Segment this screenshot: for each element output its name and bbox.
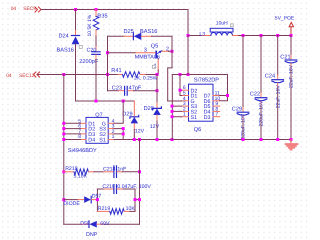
svg-text:BAS16: BAS16 [57,48,74,54]
junction bridge / right wall [138,198,141,201]
svg-text:2K, 0.25W: 2K, 0.25W [134,76,158,82]
junction S2 column [122,132,125,135]
Q7 pin 3 [108,128,114,130]
wire Q5 emitter down to R41 node [157,70,158,75]
wire Q6 source rows to x172 column [172,106,182,117]
svg-text:D29: D29 [122,112,132,118]
capacitor C219 0.047uF [97,184,151,194]
Q6 pin 4 [182,100,189,102]
Q6 pin 9 [213,105,220,107]
svg-text:C218: C218 [103,166,116,172]
svg-text:12V: 12V [135,129,145,135]
svg-text:R35: R35 [97,14,107,20]
IC Q6 Si7852DP [182,77,221,134]
Q6 pin 5 [182,95,189,97]
svg-text:5V_POE: 5V_POE [275,16,295,22]
Q6 pin 3 [182,105,189,107]
wire D29 to ground rail [133,130,135,140]
wire Q7 S3/S2 to S column [114,129,123,140]
wire Q7 gate G up to node row [114,101,123,123]
junction L3 column / row [187,34,190,37]
wire SEC9 top rail [41,9,188,11]
diode D58 60V (DNP) [64,221,140,238]
wire collector column with jog to gate row [168,36,172,101]
svg-text:D58: D58 [80,221,90,227]
wire R41 right to emitter node [146,74,157,76]
svg-text:BAS16: BAS16 [140,29,157,35]
wire Q7 D4 row [64,139,81,141]
capacitor C218 1nF [103,166,126,178]
svg-text:C20: C20 [87,48,97,54]
wire SEC12 row [37,74,118,76]
Q7 pin 7 [80,133,86,135]
junction bridge / inner right wall [134,198,137,201]
junction bus / L3 column [187,73,190,76]
svg-text:R219: R219 [98,206,111,212]
svg-text:47pF: 47pF [129,85,142,91]
Q7 pin 6 [80,128,86,130]
wire Q7 drain column x=63.8 [63,74,65,224]
svg-text:Si4946BDY: Si4946BDY [68,147,97,154]
Q6 pin 7 [213,116,220,118]
Q6 pin 11 [213,95,220,97]
junction drain column / R218 row [62,170,65,173]
junction bus / Q6 D2-D1 drop [179,73,182,76]
svg-text:10.5K 1%: 10.5K 1% [87,14,93,36]
ground symbol [286,140,298,150]
svg-text:Si7852DP: Si7852DP [194,77,219,84]
junction collector / x172 column [171,50,174,53]
Q7 pin 5 [80,122,86,124]
wire C24 to rail [277,88,279,139]
capacitor C22 [250,36,267,127]
wire Q5 base row from wall [108,52,136,54]
capacitor C20 2200pF [79,47,100,65]
wire D28 column from emitter node [156,75,158,103]
junction S3 column [122,127,125,130]
svg-text:10K: 10K [126,206,136,212]
wire D25 row [108,35,125,37]
Q7 pin 2 [108,133,114,135]
wire inner box right wall [134,189,136,211]
svg-text:R218: R218 [65,166,78,172]
junction node row / C20 [95,100,98,103]
junction wall / Q5 base row [106,51,109,54]
wire lower box right wall [139,140,141,225]
wire L3 column down to bus [187,36,189,75]
zener diode D28 12V [144,103,162,130]
svg-text:Q6: Q6 [194,127,201,133]
Q6 pin 6 [182,89,189,91]
junction top rail / R35 [95,8,98,11]
Q6 pin 8 [213,110,220,112]
wire R35 to C20 [95,36,97,47]
svg-text:C24: C24 [265,74,275,80]
junction right wall / C218 row [138,170,141,173]
svg-text:220uF, 16V: 220uF, 16V [259,100,265,126]
svg-text:SEC9: SEC9 [23,6,36,12]
wire Q7 D2 row [64,128,81,130]
wire 5V output rail [239,35,291,37]
wire Q6 gate row from collector jog [168,100,182,102]
junction 5V rail / C24 [276,34,279,37]
junction D3 row [62,132,65,135]
svg-text:D25: D25 [124,29,134,35]
wire Q7 D1 row [64,122,81,124]
svg-text:MMBTA06: MMBTA06 [135,55,160,61]
svg-text:D28: D28 [144,106,154,112]
junction 5V rail / C29 [242,34,245,37]
svg-text:04: 04 [6,73,12,79]
wire C21 to rail [290,69,292,140]
svg-text:D24: D24 [59,33,69,39]
junction D1 row [62,122,65,125]
wire Q6 D2/D1 drop x=180 [180,75,182,96]
Q6 pin 2 [182,110,189,112]
svg-text:1: 1 [183,112,186,118]
wire D28 to ground rail [156,121,158,140]
wire ground rail [114,139,291,141]
svg-text:0.047uF, 100V: 0.047uF, 100V [117,184,151,190]
svg-text:60V: 60V [100,221,110,227]
svg-text:D3: D3 [204,115,211,121]
junction x172 / S1 [171,115,174,118]
svg-text:12V: 12V [150,124,160,130]
Q6 pin 1 [182,116,189,118]
svg-text:C21: C21 [280,54,290,60]
junction SEC12 / wall [106,73,109,76]
resistor R35 [87,10,108,37]
Q7 pin 4 [108,122,114,124]
resistor R218 [64,166,94,179]
junction rail / ground [290,138,293,141]
inductor L3 10uH [188,20,239,37]
junction rail / C29 [242,138,245,141]
junction rail / C22 [260,138,263,141]
junction drop / pin6 row [179,89,182,92]
wire R218 to C218 [94,171,104,173]
junction rail / x172 column [171,138,174,141]
svg-text:S1: S1 [99,137,106,143]
junction 5V rail / C22 [260,34,263,37]
svg-text:Q7: Q7 [95,112,102,118]
IC Q7 Si4946BDY [68,112,115,153]
svg-text:220uF, 10V: 220uF, 10V [241,113,247,139]
capacitor C24 [265,36,284,109]
junction rail / C24 [276,138,279,141]
svg-text:22uF, 16V: 22uF, 16V [289,64,295,88]
svg-text:C219: C219 [102,184,115,190]
wire inner box left wall [96,189,98,211]
svg-text:D4: D4 [88,137,95,143]
svg-text:5.10K: 5.10K [74,173,88,179]
zener diode D29 12V [122,101,144,135]
svg-text:C29: C29 [232,106,242,112]
wire wall column x=107.5 [107,36,109,90]
svg-text:DNP: DNP [86,232,98,238]
junction top rail / D24 [74,8,77,11]
junction rail / lower box wall [138,138,141,141]
Q7 pin 1 [108,139,114,141]
junction rail / D28 [156,138,159,141]
svg-text:R41: R41 [111,68,121,74]
diode D57 [64,193,102,203]
svg-text:L3: L3 [199,32,205,38]
svg-text:3: 3 [144,47,147,53]
svg-text:C22: C22 [250,92,260,98]
svg-text:DIODE: DIODE [63,201,80,207]
svg-text:10uH: 10uH [216,20,228,26]
wire D25 anode to collector wall [152,36,173,51]
svg-text:Q5: Q5 [151,43,158,49]
diode D25 (BAS16) [124,29,158,40]
junction x172 / S3 [171,105,174,108]
wire Q7 D3 row [64,133,81,135]
junction D2 row [62,127,65,130]
junction drain column / D57 row [62,198,65,201]
resistor R41 [111,65,157,81]
junction D4 row [62,138,65,141]
svg-text:S1: S1 [191,115,198,121]
off-page connector SEC9 [11,6,41,12]
off-page connector SEC12 [6,72,39,79]
junction inner wall / D57 [96,198,99,201]
junction node row / Q7 gate tap [122,100,125,103]
svg-text:C23: C23 [112,85,122,91]
svg-text:7: 7 [215,112,218,118]
svg-text:04: 04 [11,6,17,12]
Q6 pin 10 [213,100,220,102]
resistor R219 10K [97,206,135,214]
wire Q5 collector to x172 column [169,50,173,52]
junction drop / pin 11 [226,94,229,97]
capacitor C23 47pF [108,85,158,95]
svg-text:SEC12: SEC12 [19,73,35,79]
capacitor C21 [280,36,297,89]
wire C22 to rail [260,106,262,139]
transistor Q5 MMBTA06 [135,43,169,70]
wire Q6 pins 11/10 to bus drop x=227.5 [220,75,228,101]
junction C23 / D28 column [156,89,159,92]
power symbol 5V_POE [275,16,295,36]
wire D24 column lower to node row y=101 [76,44,135,101]
wire D24 column upper [75,10,77,31]
wire C29 to rail [242,121,244,140]
svg-text:22uF, 16V: 22uF, 16V [275,85,281,109]
wire C20 column lower to node row y=101 [95,60,97,102]
junction rail / D29 [133,138,136,141]
Q7 pin 8 [80,139,86,141]
wire Q6 source column x=172.3 [171,75,173,140]
wire bridge inner wall to right wall [135,199,140,201]
wire drain bus y=74.4 [172,74,227,76]
junction SEC12 / Q7 drain column [62,73,65,76]
diode D24 (BAS16) [57,31,83,54]
capacitor C29 [232,36,249,140]
junction x172 / S2 [171,110,174,113]
junction R41 / emitter / D28 column [156,73,159,76]
wire top-right drop to L3 row [187,10,189,36]
junction 5V rail / C21 / power [290,34,293,37]
wire C218 to right wall [123,171,140,173]
